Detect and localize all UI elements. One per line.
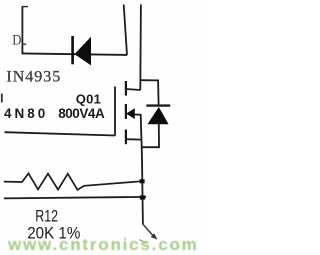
- wire: [21, 6, 23, 54]
- transistor Q1 body lead: [135, 115, 142, 140]
- transistor Q1 gate lead: [5, 132, 116, 135]
- arrowhead: [151, 233, 158, 239]
- arrow tail ticks: [139, 240, 147, 244]
- body diode cathode bar: [146, 104, 170, 106]
- transistor Q1 drain lead: [126, 89, 140, 90]
- node junction dot lower: [140, 195, 145, 199]
- transistor Q1 channel source segment: [125, 130, 127, 145]
- wire: [22, 6, 28, 8]
- wire current-sense arrow diagonal: [143, 224, 155, 237]
- edge text artifact: [1, 94, 3, 103]
- body diode branch top wire: [140, 80, 158, 105]
- transistor Q1 gate plate: [114, 87, 116, 136]
- wire lower horizontal: [4, 197, 146, 199]
- transistor Q1 source lead: [126, 138, 142, 140]
- node junction dot upper: [140, 179, 145, 183]
- transistor Q1 channel body segment: [125, 104, 127, 119]
- svg-text:800V4A: 800V4A: [58, 106, 105, 121]
- svg-text:D: D: [12, 33, 21, 49]
- wire: [22, 43, 26, 45]
- source wire down: [142, 140, 143, 225]
- svg-text:www.cntronics.com: www.cntronics.com: [7, 235, 199, 254]
- body diode: [147, 107, 168, 124]
- svg-text:4N80: 4N80: [4, 106, 48, 121]
- transistor Q1 body arrow: [126, 108, 135, 119]
- svg-text:R12: R12: [35, 208, 58, 226]
- wire: [22, 53, 127, 55]
- body diode anode wire: [142, 124, 159, 147]
- svg-text:Q01: Q01: [76, 91, 101, 106]
- wire: [139, 5, 142, 91]
- wire: [124, 5, 127, 56]
- resistor R12 body: [4, 173, 143, 189]
- diode D1 cathode bar: [71, 36, 74, 64]
- transistor Q1 channel drain segment: [125, 81, 127, 96]
- svg-text:IN4935: IN4935: [6, 69, 61, 86]
- diode D1: [74, 37, 91, 66]
